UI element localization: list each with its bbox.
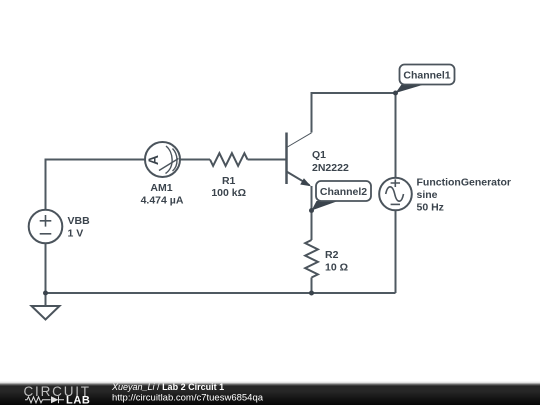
svg-text:10 Ω: 10 Ω	[325, 262, 348, 274]
node junction Channel1	[393, 91, 398, 96]
svg-text:50 Hz: 50 Hz	[417, 202, 444, 214]
svg-text:VBB: VBB	[68, 215, 91, 227]
wire Q1 collector to Channel1 node	[312, 93, 396, 133]
voltage source VBB	[29, 210, 63, 244]
wire ammeter to R1	[180, 159, 210, 161]
wire bottom rail	[46, 292, 396, 294]
wire function generator to bottom rail	[395, 210, 397, 293]
label AM1 value	[141, 182, 184, 207]
svg-text:Channel1: Channel1	[403, 70, 450, 82]
svg-text:Q1: Q1	[312, 149, 326, 161]
resistor R1	[210, 153, 248, 166]
label Q1 value	[312, 149, 349, 174]
node junction Channel2	[309, 208, 314, 213]
ground	[32, 306, 60, 320]
wire Channel1 node to function generator	[395, 93, 397, 179]
svg-text:4.474 µA: 4.474 µA	[141, 195, 184, 207]
svg-text:2N2222: 2N2222	[312, 162, 349, 174]
wire VBB bottom to ground node	[45, 243, 47, 293]
wire Q1 emitter to R2	[311, 186, 313, 240]
svg-text:R1: R1	[222, 175, 236, 187]
svg-text:AM1: AM1	[150, 182, 172, 194]
wire VBB top to ammeter	[46, 160, 146, 211]
footer bar	[0, 381, 540, 405]
svg-text:LAB: LAB	[66, 394, 90, 405]
transistor Q1 emitter arrow	[300, 178, 311, 186]
flag Channel2	[312, 181, 372, 211]
label function generator value	[417, 177, 512, 214]
svg-text:Xueyan_Li / Lab 2 Circuit 1: Xueyan_Li / Lab 2 Circuit 1	[111, 382, 224, 392]
transistor Q1	[287, 133, 312, 186]
label R2 value	[325, 249, 348, 274]
svg-text:Channel2: Channel2	[320, 186, 367, 198]
node junction R2 bottom	[309, 291, 314, 296]
flag Channel1	[396, 65, 455, 94]
svg-text:sine: sine	[417, 189, 438, 201]
svg-text:100 kΩ: 100 kΩ	[211, 187, 246, 199]
svg-text:1 V: 1 V	[68, 227, 84, 239]
function generator	[379, 178, 412, 211]
label R1 value	[211, 175, 246, 199]
wire R1 to Q1 base	[248, 159, 286, 161]
footer logo schematic line	[25, 396, 64, 403]
wire R2 to bottom rail	[311, 278, 313, 294]
svg-text:R2: R2	[325, 249, 339, 261]
label VBB value	[68, 215, 91, 240]
footer logo diode	[51, 396, 59, 403]
resistor R2	[305, 240, 318, 278]
wire ground stub	[45, 293, 47, 306]
svg-text:FunctionGenerator: FunctionGenerator	[417, 177, 512, 189]
node junction ground	[43, 291, 48, 296]
ammeter AM1	[145, 142, 180, 177]
svg-text:A: A	[145, 155, 161, 165]
svg-text:http://circuitlab.com/c7tuesw6: http://circuitlab.com/c7tuesw6854qa	[112, 392, 264, 403]
